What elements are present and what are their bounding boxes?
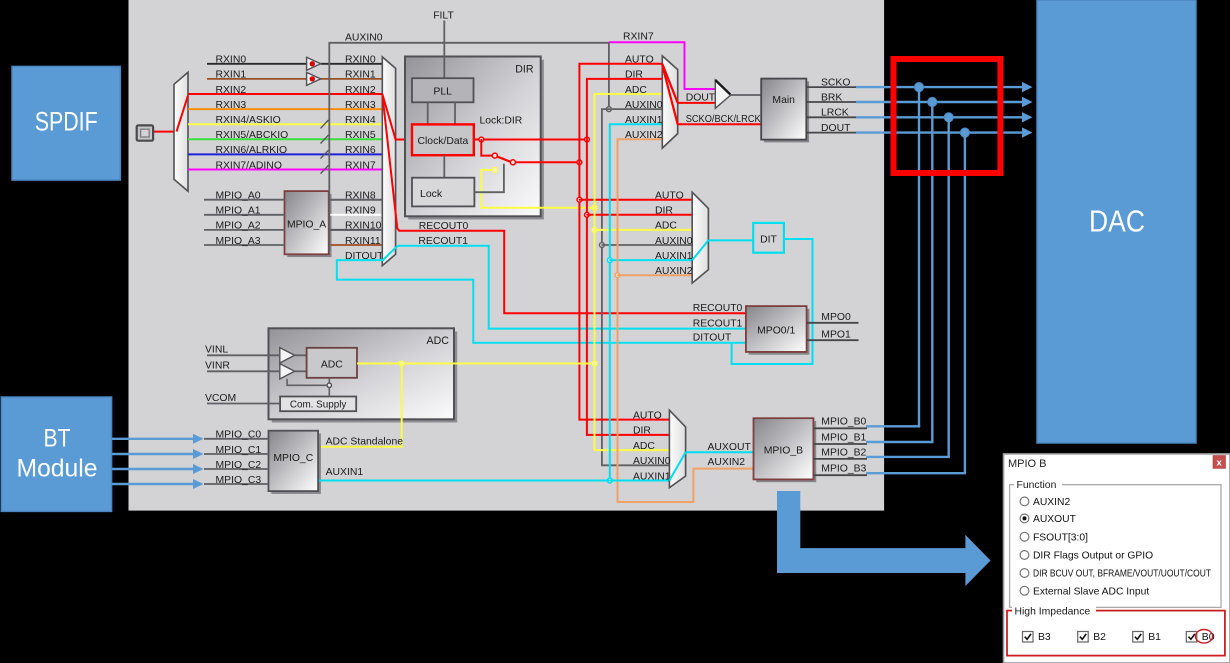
svg-text:MPO0: MPO0 (821, 312, 851, 323)
wire MPIO_B2 stub (gray) (813, 458, 867, 460)
mux M2b DOUT source select triangle (715, 80, 731, 108)
wire ADC core to supply node (328, 378, 330, 383)
svg-text:RXIN9: RXIN9 (345, 206, 376, 217)
block DIT (753, 223, 784, 253)
mux M4 AUXOUT selector (669, 410, 685, 488)
wire DITOUT from mux M1 (cyan) (337, 260, 746, 343)
wire BT to MPIO_C2 (blue) (112, 468, 194, 470)
svg-text:AUXIN0: AUXIN0 (655, 236, 693, 247)
node LRCK tap dot (944, 113, 953, 122)
wire LRCK stub (gray) (806, 116, 856, 118)
block SPDIF source (12, 66, 120, 180)
svg-text:AUXIN2: AUXIN2 (655, 266, 693, 277)
buffer amplifier RXIN0 (307, 57, 321, 70)
checkbox B1 checked (1133, 632, 1161, 644)
arrowhead MPIO_C3 (193, 479, 204, 489)
svg-text:RXIN1: RXIN1 (216, 70, 247, 81)
wire RXIN2 (RXIN2) (188, 93, 382, 95)
wire BT to MPIO_C1 (blue) (112, 453, 194, 455)
wire FILT to PLL (443, 21, 445, 79)
wire RXIN2 to RECOUT0 inside mux M1 (red) (382, 94, 399, 231)
svg-text:MPIO_A1: MPIO_A1 (216, 206, 261, 217)
groupbox High Impedance (red) (1007, 606, 1225, 656)
svg-text:MPIO_A: MPIO_A (287, 219, 326, 230)
wire VINL buffer to ADC (295, 354, 307, 356)
svg-text:RXIN5/ABCKIO: RXIN5/ABCKIO (216, 130, 289, 141)
wire MPO0 (gray) (807, 322, 859, 324)
wire BT to MPIO_C0 (blue) (112, 438, 194, 440)
node AUXIN1 mux2 junction (607, 258, 612, 263)
svg-text:RXIN5: RXIN5 (345, 130, 376, 141)
svg-text:RXIN0: RXIN0 (345, 55, 376, 66)
wire AUXIN0 jog to bus (gray) (602, 109, 670, 465)
svg-text:RXIN4: RXIN4 (345, 115, 376, 126)
diagram background panel (129, 0, 885, 511)
wire BRK to DAC (blue) (856, 101, 1023, 103)
svg-text:AUTO: AUTO (655, 191, 684, 202)
radio option AUXIN2 (1020, 497, 1070, 508)
wire RECOUT1 inside mux M1 (cyan) (383, 246, 397, 260)
wire AUXIN0 top (gray) (329, 43, 609, 251)
wire BRK drop to MPIO_B1 (blue) (931, 102, 933, 442)
svg-text:DIR Flags Output or GPIO: DIR Flags Output or GPIO (1033, 551, 1153, 562)
wire Clock/Data output (red) (474, 139, 587, 141)
wire AUXIN2 branch to mux2 (orange) (618, 274, 693, 276)
svg-text:Clock/Data: Clock/Data (417, 136, 468, 147)
wire RECOUT0 (red) (399, 231, 746, 313)
wire RXIN0 (RXIN0) (207, 63, 307, 65)
wire RECOUT1 (cyan) (398, 246, 746, 329)
wire VINR buffer to ADC (295, 370, 307, 372)
wire RXIN4 (RXIN4/ASKIO) (188, 123, 382, 125)
svg-text:AUXOUT: AUXOUT (1033, 514, 1077, 525)
arrow to MPIO B dialog (777, 491, 991, 586)
red highlight box (894, 59, 1001, 173)
svg-text:Lock:DIR: Lock:DIR (480, 115, 523, 126)
svg-text:B2: B2 (1093, 632, 1106, 643)
wire AUXIN1 from MPIO_C (cyan) (319, 480, 669, 482)
svg-text:MPIO_C: MPIO_C (273, 453, 313, 464)
wire triangle to Main (gray) (731, 94, 761, 96)
wire AUXIN1 branch to mux2 (cyan) (610, 259, 692, 261)
node BRK tap dot (928, 97, 937, 106)
wire RXIN2 to DIR path inside mux M1 (red) (382, 94, 412, 140)
wire MPO1 (gray) (807, 339, 859, 341)
svg-text:LRCK: LRCK (821, 108, 849, 119)
block MPIO_B (756, 421, 816, 482)
svg-text:AUXIN1: AUXIN1 (326, 467, 364, 478)
svg-text:RXIN2: RXIN2 (216, 85, 247, 96)
svg-text:RXIN3: RXIN3 (216, 100, 247, 111)
mux M0 RXIN input selector (174, 72, 188, 191)
buffer VINR (280, 364, 295, 379)
svg-text:RECOUT1: RECOUT1 (418, 236, 468, 247)
bus ADC (yellow) (595, 94, 670, 450)
svg-text:MPO1: MPO1 (821, 330, 851, 341)
wire RXIN7 top (magenta) (609, 42, 715, 89)
svg-text:AUXIN0: AUXIN0 (625, 100, 663, 111)
svg-text:AUXIN1: AUXIN1 (655, 251, 693, 262)
svg-text:RXIN3: RXIN3 (345, 100, 376, 111)
block PLL (412, 78, 474, 102)
node ADC standalone branch (399, 361, 404, 366)
wire SCKO/BCK/LRCK (red) (678, 123, 762, 125)
svg-text:DIR BCUV OUT, BFRAME/VOUT/UOUT: DIR BCUV OUT, BFRAME/VOUT/UOUT/COUT (1033, 569, 1212, 580)
bus DIR (red) (587, 79, 670, 435)
svg-text:AUTO: AUTO (625, 55, 654, 66)
svg-text:MPIO_C2: MPIO_C2 (216, 460, 262, 471)
svg-text:MPIO_B1: MPIO_B1 (821, 432, 866, 443)
svg-text:AUXIN2: AUXIN2 (1033, 497, 1070, 508)
hop marks on RXIN4-RXIN7 (321, 120, 329, 128)
arrowhead MPIO_C1 (193, 449, 204, 459)
svg-text:VINR: VINR (205, 361, 230, 372)
svg-text:ADC: ADC (427, 335, 450, 347)
wire AUXIN0 branch to mux1 (gray) (609, 108, 662, 110)
buffer VINL (280, 348, 295, 363)
svg-text:MPIO_A3: MPIO_A3 (216, 236, 261, 247)
wire ADC Standalone (yellow) (319, 364, 402, 447)
wire LRCK to DAC (blue) (856, 116, 1023, 118)
svg-text:SCKO: SCKO (821, 78, 850, 89)
node DIR bus junction (585, 137, 590, 142)
svg-text:DIR: DIR (655, 206, 673, 217)
svg-text:High Impedance: High Impedance (1015, 607, 1091, 618)
svg-text:B3: B3 (1038, 632, 1051, 643)
wire BT to MPIO_C3 (blue) (112, 483, 194, 485)
wire VINR (207, 370, 280, 372)
svg-text:DIR: DIR (625, 70, 643, 81)
svg-text:DIR: DIR (633, 426, 651, 437)
block Clock/Data (412, 124, 474, 155)
wire DIT output loop (cyan) (732, 239, 813, 364)
wire Lock control to switch (gray) (474, 164, 504, 192)
node DIR mux2 junction (585, 212, 590, 217)
svg-text:External Slave ADC Input: External Slave ADC Input (1033, 586, 1149, 597)
wire MPIO_A1 (204, 214, 285, 216)
block ADC core (307, 348, 357, 378)
wire RXIN11 (329, 244, 383, 246)
radio option AUXOUT (1020, 514, 1077, 525)
block Com. Supply (280, 397, 356, 412)
svg-text:AUXIN1: AUXIN1 (625, 115, 663, 126)
svg-text:DITOUT: DITOUT (693, 333, 732, 344)
wire AUXIN1 to DIT inside mux M3 (cyan) (692, 240, 708, 260)
block MPO0/1 (749, 309, 810, 355)
wire PLL to Clock/Data right (454, 102, 456, 124)
node AUXIN1 bottom junction (607, 478, 612, 483)
wire AUTO to DOUT inside mux M2 (red) (662, 64, 677, 103)
svg-text:MPIO_C1: MPIO_C1 (216, 445, 262, 456)
svg-text:DIR: DIR (515, 64, 534, 76)
wire AUXOUT (cyan) (686, 451, 754, 453)
wire MPIO_B1 horizontal (blue) (866, 441, 934, 443)
svg-text:RXIN7: RXIN7 (623, 31, 654, 42)
checkbox B2 checked (1078, 632, 1106, 644)
svg-text:ADC: ADC (625, 85, 647, 96)
arrowhead SCKO (1022, 82, 1033, 92)
svg-text:RXIN11: RXIN11 (345, 236, 381, 247)
bus AUXIN1 (cyan) (610, 124, 663, 480)
svg-text:FSOUT[3:0]: FSOUT[3:0] (1033, 532, 1088, 543)
svg-text:ADC: ADC (655, 221, 677, 232)
svg-text:MPO0/1: MPO0/1 (757, 325, 795, 336)
wire DOUT (red) (678, 102, 716, 104)
wire RXIN7 (RXIN7/ADINO) (188, 169, 382, 171)
wire DOUT stub (gray) (806, 132, 856, 134)
checkbox B3 checked (1023, 632, 1051, 644)
block MPIO_A (287, 194, 331, 257)
arrowhead BRK (1022, 97, 1033, 107)
svg-text:MPIO_A0: MPIO_A0 (216, 191, 261, 202)
svg-text:ADC: ADC (321, 359, 343, 370)
svg-text:SCKO/BCK/LRCK: SCKO/BCK/LRCK (686, 114, 761, 125)
wire supply node to Com. Supply (328, 388, 330, 397)
node Clock/Data output (479, 137, 484, 142)
svg-text:AUXIN0: AUXIN0 (633, 456, 671, 467)
svg-text:FILT: FILT (433, 11, 454, 22)
wire SCKO to DAC (blue) (856, 86, 1023, 88)
block ADC section (272, 332, 458, 423)
block DAC (1037, 0, 1196, 443)
svg-text:Main: Main (772, 95, 795, 106)
svg-text:RXIN4/ASKIO: RXIN4/ASKIO (216, 115, 281, 126)
bus AUXIN2 (orange) (618, 139, 754, 502)
arrowhead MPIO_C0 (193, 434, 204, 444)
wire PLL to Clock/Data left (427, 102, 429, 124)
wire MPIO_A2 (204, 229, 285, 231)
svg-text:RXIN8: RXIN8 (345, 191, 376, 202)
wire RXIN8 (329, 199, 383, 201)
svg-text:ADC: ADC (633, 441, 655, 452)
highlight ellipse around B0 (1195, 630, 1212, 644)
wire SCKO drop to MPIO_B0 (blue) (918, 87, 920, 426)
block Lock (412, 178, 474, 207)
wire MPIO_C0 (gray) (204, 438, 269, 440)
svg-text:RXIN6: RXIN6 (345, 145, 376, 156)
mux M3 DIT source selector (692, 192, 708, 283)
svg-text:Lock: Lock (420, 188, 443, 200)
wire LRCK drop to MPIO_B2 (blue) (948, 117, 950, 457)
wire MPIO_A0 (204, 199, 285, 201)
wire SCKO stub (gray) (806, 86, 856, 88)
radio option FSOUT[3:0] (1020, 532, 1088, 543)
wire MPIO_C3 (gray) (204, 483, 269, 485)
arrowhead MPIO_C2 (193, 464, 204, 474)
node ADC bus yellow junction (592, 205, 597, 210)
wire switch to AUTO bus (red) (515, 161, 579, 163)
radio option DIR Flags Output or GPIO (1020, 551, 1153, 562)
svg-text:MPIO_B2: MPIO_B2 (821, 447, 866, 458)
wire mux M3 to DIT (cyan) (708, 239, 753, 241)
wire RXIN3 (RXIN3) (188, 108, 382, 110)
svg-text:RXIN7/ADINO: RXIN7/ADINO (216, 160, 282, 171)
svg-text:Module: Module (17, 455, 98, 483)
svg-text:RECOUT0: RECOUT0 (419, 221, 469, 232)
wire MPIO_C2 (gray) (204, 468, 269, 470)
svg-text:x: x (1217, 457, 1223, 468)
dialog MPIO B window (1004, 454, 1230, 663)
svg-text:RECOUT0: RECOUT0 (693, 303, 743, 314)
svg-text:RXIN10: RXIN10 (345, 221, 382, 232)
wire MPIO_B0 horizontal (blue) (866, 425, 920, 427)
wire DOUT drop to MPIO_B3 (blue) (964, 133, 966, 474)
node supply junction (327, 383, 331, 387)
svg-text:MPIO B: MPIO B (1008, 458, 1047, 470)
svg-text:VINL: VINL (205, 345, 228, 356)
wire MPIO_B0 stub (gray) (813, 427, 867, 429)
svg-text:B1: B1 (1148, 632, 1161, 643)
svg-text:VCOM: VCOM (205, 393, 236, 404)
wire AUTO branch to mux2 (red) (579, 199, 692, 201)
svg-text:MPIO_B3: MPIO_B3 (821, 464, 866, 475)
node DOUT tap dot (960, 128, 969, 137)
node AUTO mux2 junction (577, 197, 582, 202)
svg-text:BT: BT (44, 425, 71, 453)
svg-text:RXIN6/ALRKIO: RXIN6/ALRKIO (216, 145, 288, 156)
buffer amplifier RXIN1 (307, 72, 321, 85)
wire AUXIN1 to AUXOUT inside mux M4 (cyan) (669, 452, 685, 480)
node SCKO tap dot (914, 83, 923, 92)
wire SPDIF to RXIN mux (red) (154, 131, 176, 133)
node ADC mux2 junction (592, 228, 597, 233)
block DIR receiver (408, 60, 544, 220)
wire MPIO_B3 stub (gray) (813, 474, 867, 476)
svg-text:Function: Function (1017, 480, 1057, 491)
dialog close button (1213, 456, 1225, 469)
svg-text:DAC: DAC (1089, 204, 1145, 239)
groupbox Function (1010, 479, 1221, 607)
checkbox B0 checked (1186, 632, 1214, 644)
wire AUTO to SCKO inside mux M2 (red) (662, 65, 677, 124)
svg-text:DIT: DIT (760, 234, 777, 245)
wire RXIN1 (RXIN1) (207, 78, 307, 80)
svg-text:SPDIF: SPDIF (35, 107, 98, 137)
wire AUXIN0 branch to mux2 (gray) (602, 244, 692, 246)
node ADC bus junction (592, 361, 597, 366)
mux M2 output selector to Main (662, 56, 677, 148)
wire ADC output (yellow) (357, 363, 595, 365)
arrowhead LRCK (1022, 112, 1033, 122)
node AUXIN0 mux2 junction (600, 243, 605, 248)
svg-text:DOUT: DOUT (686, 92, 716, 103)
radio option External Slave ADC Input (1020, 586, 1149, 597)
svg-text:ADC Standalone: ADC Standalone (326, 436, 404, 447)
svg-text:AUXIN0: AUXIN0 (345, 32, 383, 43)
wire Clock/Data to Lock (443, 155, 445, 178)
svg-text:MPIO_B0: MPIO_B0 (821, 417, 866, 428)
svg-text:AUXOUT: AUXOUT (708, 442, 752, 453)
svg-text:MPIO_C3: MPIO_C3 (216, 475, 262, 486)
svg-text:AUTO: AUTO (633, 410, 662, 421)
svg-text:MPIO_B: MPIO_B (764, 445, 803, 456)
svg-text:RXIN7: RXIN7 (345, 160, 376, 171)
switch DIR/AUTO select (red) (481, 140, 492, 156)
wire VCOM (207, 403, 280, 405)
block BT Module (1, 397, 111, 511)
node AUXIN2 mux2 junction (615, 273, 620, 278)
wire MPIO_B3 horizontal (blue) (866, 472, 966, 474)
bus AUTO (red) (579, 64, 669, 420)
wire RXIN2 selected path inside mux M0 (red) (177, 96, 189, 132)
svg-text:AUXIN2: AUXIN2 (708, 457, 746, 468)
node AUTO bus junction (577, 160, 582, 165)
svg-text:DOUT: DOUT (821, 123, 851, 134)
svg-text:PLL: PLL (433, 86, 452, 98)
svg-text:BRK: BRK (821, 92, 842, 103)
svg-text:AUXIN1: AUXIN1 (633, 471, 671, 482)
node AUXIN0 mux1 junction (607, 107, 612, 112)
wire DOUT to DAC (blue) (856, 131, 1023, 133)
wire VINL (207, 354, 280, 356)
wire MPIO_C1 (gray) (204, 453, 269, 455)
svg-text:RXIN2: RXIN2 (345, 85, 376, 96)
arrowhead DOUT (1022, 127, 1033, 137)
wire RXIN5 (RXIN5/ABCKIO) (188, 138, 382, 140)
block MPIO_C (271, 434, 321, 494)
svg-text:MPIO_A2: MPIO_A2 (216, 221, 261, 232)
svg-text:Com. Supply: Com. Supply (290, 400, 347, 411)
mux M1 main input mux (382, 57, 395, 266)
wire MPIO_B2 horizontal (blue) (866, 456, 950, 458)
svg-text:RXIN0: RXIN0 (216, 55, 247, 66)
wire RXIN6 (RXIN6/ALRKIO) (188, 153, 382, 155)
svg-text:MPIO_C0: MPIO_C0 (216, 430, 262, 441)
wire Lock status (yellow) (481, 170, 594, 208)
wire RXIN9 (329, 214, 383, 216)
block Main (764, 81, 809, 142)
svg-text:RXIN1: RXIN1 (345, 70, 376, 81)
wire MPIO_B1 stub (gray) (813, 443, 867, 445)
wire MPIO_A3 (204, 244, 285, 246)
svg-text:AUXIN2: AUXIN2 (625, 130, 663, 141)
connector SPDIF input jack (137, 125, 153, 140)
wire DIR branch to mux2 (red) (587, 214, 692, 216)
wire BRK stub (gray) (806, 101, 856, 103)
wire buffer bias to supply node (287, 379, 327, 386)
svg-text:RECOUT1: RECOUT1 (693, 319, 743, 330)
wire RXIN10 (329, 229, 383, 231)
radio option DIR BCUV OUT, BFRAME/VOUT/UOUT/COUT (1020, 569, 1211, 580)
wire ADC branch to mux2 (yellow) (595, 229, 693, 231)
